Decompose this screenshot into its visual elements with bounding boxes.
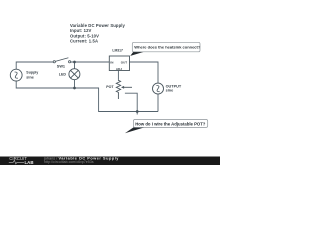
logo waveform: [9, 160, 24, 164]
svg-text:sine: sine: [166, 89, 174, 93]
svg-text:SW1: SW1: [57, 65, 65, 69]
wire: OUTPUT bottom: [157, 94, 159, 111]
wire: LED branch top: [74, 62, 76, 69]
annotation: title text block: [70, 23, 126, 43]
svg-text:Supply: Supply: [26, 71, 38, 75]
svg-text:http://circuitlab.com/c6vp7e53: http://circuitlab.com/c6vp7e53s: [44, 160, 94, 164]
wire: bottom net: [16, 81, 158, 111]
lamp LED: [69, 69, 80, 80]
svg-text:LAB: LAB: [25, 160, 34, 165]
callout: heatsink question: [130, 42, 201, 56]
svg-text:How do I wire the Adjustable P: How do I wire the Adjustable POT?: [135, 121, 206, 126]
svg-text:OUT: OUT: [121, 60, 128, 64]
node: junction SW1/LED: [73, 61, 76, 64]
svg-text:LED: LED: [59, 73, 67, 77]
callout: POT wiring question: [125, 120, 208, 134]
watermark footer bar: [0, 157, 220, 166]
svg-text:IN: IN: [110, 60, 113, 64]
wire: LM317 OUT to OUTPUT top: [130, 62, 159, 83]
wire: floating POT wire: [125, 93, 137, 114]
wire: LM317 ADJ down to POT: [117, 71, 119, 80]
svg-text:Where does the heatsink connec: Where does the heatsink connect?: [134, 44, 201, 49]
node: junction floating wire/bottom: [136, 110, 139, 113]
svg-text:POT: POT: [106, 85, 114, 89]
potentiometer POT: [116, 80, 132, 99]
regulator U1 LM317 box: [109, 56, 129, 71]
switch SW1: [53, 58, 70, 63]
wire: LED branch bottom: [74, 80, 76, 88]
voltage source OUTPUT: [153, 83, 164, 94]
node: junction LED/bottom: [73, 87, 76, 90]
svg-text:sine: sine: [26, 75, 34, 79]
svg-text:LM317: LM317: [112, 49, 123, 53]
wire: SW1 to LM317 IN: [71, 61, 110, 63]
voltage source V1 Supply: [10, 69, 22, 81]
potentiometer wiper arrowhead: [121, 86, 124, 89]
svg-text:Current: 1.5A: Current: 1.5A: [70, 38, 98, 43]
svg-text:ADJ: ADJ: [116, 67, 122, 71]
wire: supply top to SW1: [16, 62, 53, 69]
